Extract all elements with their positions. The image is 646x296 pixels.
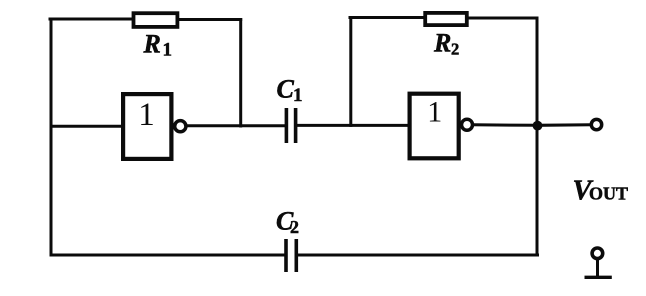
ground terminal (585, 248, 612, 277)
wire R2 top left segment (350, 16, 424, 19)
wire U1 input (51, 125, 122, 128)
op-amp U2 inverter gate box (410, 94, 459, 159)
wire node A to output terminal (537, 123, 590, 127)
svg-text:2: 2 (451, 39, 459, 58)
capacitor C2 plates (286, 239, 296, 272)
wire C1 to U2 input (297, 124, 409, 127)
svg-text:1: 1 (427, 96, 442, 129)
resistor R1 (134, 13, 178, 27)
capacitor C1 plates (286, 108, 295, 143)
wire R1 right vertical to U1 output node (239, 20, 242, 127)
op-amp U1 inverter gate box (123, 94, 171, 159)
wire R1 top left segment (50, 18, 133, 21)
node A junction dot (533, 121, 543, 131)
U2 output inversion bubble (462, 119, 473, 130)
wire R1 top right segment (179, 18, 241, 21)
wire right vertical rail (536, 18, 539, 255)
svg-text:1: 1 (163, 40, 173, 61)
wire bottom right segment from C2 (298, 254, 538, 257)
resistor R2 (425, 13, 467, 25)
svg-text:C: C (277, 75, 295, 104)
wire bottom left segment to C2 (51, 254, 285, 257)
wire R2 left vertical (349, 18, 352, 126)
wire U1 output to C1 (187, 124, 286, 127)
svg-text:OUT: OUT (589, 184, 628, 204)
svg-text:R: R (143, 30, 161, 59)
U1 output inversion bubble (175, 121, 186, 132)
svg-text:1: 1 (138, 97, 155, 133)
svg-text:2: 2 (290, 217, 299, 237)
wire left vertical rail (50, 19, 53, 255)
svg-text:R: R (433, 28, 451, 57)
wire U2 output to node A (474, 123, 538, 127)
output terminal circle (591, 119, 601, 129)
wire R2 top right segment (468, 17, 537, 20)
svg-text:1: 1 (293, 85, 303, 106)
